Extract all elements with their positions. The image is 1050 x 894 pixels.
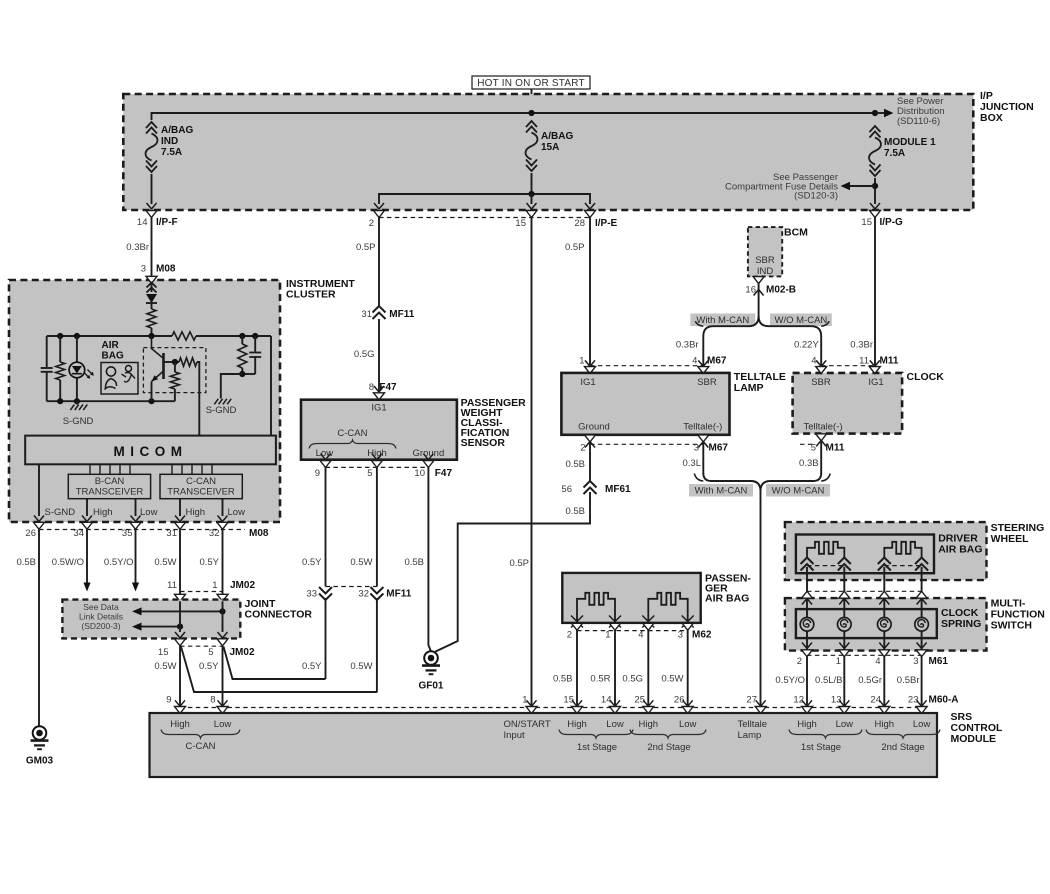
connector M61 pins 2 1 4 3 bbox=[806, 631, 808, 650]
svg-text:0.3L: 0.3L bbox=[683, 458, 702, 469]
node junction dot branch bbox=[528, 191, 534, 197]
svg-text:5: 5 bbox=[811, 443, 816, 454]
svg-text:15: 15 bbox=[861, 217, 872, 228]
MICOM block bbox=[25, 436, 276, 465]
wire MICOM to B-CAN ticks bbox=[89, 464, 91, 474]
svg-text:0.5P: 0.5P bbox=[356, 242, 376, 253]
wire data link arrow lower bbox=[140, 626, 180, 628]
svg-text:4: 4 bbox=[875, 656, 880, 667]
svg-text:Telltale(-): Telltale(-) bbox=[683, 422, 722, 433]
capacitor C2 right bbox=[254, 336, 256, 352]
wire telltale merge right bbox=[761, 473, 822, 491]
BCM box bbox=[748, 227, 782, 276]
wire 0.5B MF61 to GF01 bbox=[434, 492, 591, 653]
wire with M-CAN fork left bbox=[703, 316, 758, 367]
svg-text:25: 25 bbox=[634, 695, 645, 706]
svg-text:SPRING: SPRING bbox=[941, 618, 981, 630]
svg-text:0.3Br: 0.3Br bbox=[676, 340, 699, 351]
wire 0.5B PAB to SRS 15 bbox=[576, 630, 578, 706]
svg-text:11: 11 bbox=[859, 356, 869, 367]
wire data link arrow upper bbox=[140, 610, 223, 612]
transistor Q1 dashed box bbox=[143, 348, 206, 393]
connector I/P-G pin 15 bbox=[870, 211, 881, 218]
svg-text:M08: M08 bbox=[156, 264, 176, 275]
svg-text:8: 8 bbox=[369, 382, 374, 393]
svg-text:0.5B: 0.5B bbox=[565, 506, 585, 517]
node HOT IN ON OR START bbox=[472, 76, 590, 89]
svg-text:C-CAN: C-CAN bbox=[186, 476, 216, 487]
wire C-CAN High out bbox=[179, 499, 181, 516]
svg-text:SBR: SBR bbox=[755, 255, 775, 266]
svg-text:0.5W: 0.5W bbox=[661, 674, 683, 685]
svg-text:3: 3 bbox=[694, 443, 699, 454]
wire B-CAN Low out bbox=[135, 499, 137, 516]
connector M08 pin 3 symbol bbox=[146, 276, 157, 283]
svg-text:High: High bbox=[367, 448, 387, 459]
svg-text:(SD120-3): (SD120-3) bbox=[794, 191, 838, 202]
svg-text:4: 4 bbox=[638, 630, 643, 641]
svg-text:15A: 15A bbox=[541, 142, 559, 153]
capacitor C1 left bbox=[46, 336, 48, 367]
squib passenger 2nd stage bbox=[648, 593, 687, 622]
wire 0.5B telltale ground to MF61 bbox=[589, 442, 591, 482]
svg-text:MICOM: MICOM bbox=[114, 444, 188, 459]
svg-text:WHEEL: WHEEL bbox=[991, 533, 1030, 545]
svg-text:CLUSTER: CLUSTER bbox=[286, 289, 336, 301]
svg-text:IG1: IG1 bbox=[371, 403, 386, 414]
svg-text:Low: Low bbox=[606, 719, 624, 730]
wire 0.5Y/O B-CAN Low arrow bbox=[135, 530, 137, 584]
svg-text:4: 4 bbox=[811, 356, 816, 367]
svg-text:7.5A: 7.5A bbox=[161, 147, 182, 158]
svg-text:BCM: BCM bbox=[784, 227, 808, 239]
svg-text:Link Details: Link Details bbox=[79, 612, 123, 622]
svg-text:3: 3 bbox=[678, 630, 683, 641]
svg-text:0.3Br: 0.3Br bbox=[850, 340, 873, 351]
svg-text:0.5Y: 0.5Y bbox=[302, 557, 322, 568]
svg-text:JM02: JM02 bbox=[230, 580, 255, 591]
resistor cluster series bbox=[147, 309, 156, 328]
svg-text:2: 2 bbox=[567, 630, 572, 641]
node junction dot bus/MODULE-1 bbox=[872, 110, 878, 116]
squib passenger 1st stage bbox=[577, 593, 615, 622]
wire w/o M-CAN fork right bbox=[759, 316, 822, 367]
driver air bag box bbox=[796, 535, 934, 574]
svg-text:15: 15 bbox=[515, 218, 526, 229]
svg-text:9: 9 bbox=[166, 695, 171, 706]
svg-text:AIR: AIR bbox=[102, 340, 120, 351]
svg-text:0.5W: 0.5W bbox=[350, 661, 372, 672]
node base dot bbox=[172, 359, 178, 365]
wire cluster ground rail bbox=[47, 400, 175, 402]
wire 0.5L/B CS to SRS 13 bbox=[843, 657, 845, 706]
svg-text:35: 35 bbox=[122, 528, 133, 539]
svg-text:I/P-F: I/P-F bbox=[156, 217, 178, 228]
wire fuse to I/P-G pin 15 bbox=[874, 178, 876, 204]
svg-text:5: 5 bbox=[208, 647, 213, 658]
svg-text:10: 10 bbox=[414, 468, 425, 479]
connector I/P-F pin 14 bbox=[146, 211, 157, 218]
svg-text:1: 1 bbox=[522, 695, 527, 706]
wire 0.5W PAB to SRS 26 bbox=[687, 630, 689, 706]
ground GF01 bbox=[424, 651, 438, 665]
I/P junction box bbox=[123, 94, 973, 210]
resistor R2 right bbox=[241, 336, 243, 344]
node bus dots bbox=[57, 333, 63, 339]
svg-text:High: High bbox=[93, 507, 113, 518]
svg-text:0.5W: 0.5W bbox=[154, 557, 176, 568]
connector M11 pin 5 bbox=[816, 434, 827, 441]
svg-text:S-GND: S-GND bbox=[206, 405, 237, 416]
svg-text:SBR: SBR bbox=[811, 377, 831, 388]
svg-text:JM02: JM02 bbox=[230, 647, 255, 658]
svg-text:0.5R: 0.5R bbox=[590, 674, 610, 685]
svg-text:0.5B: 0.5B bbox=[404, 557, 424, 568]
svg-text:0.5W: 0.5W bbox=[154, 661, 176, 672]
svg-text:High: High bbox=[170, 719, 190, 730]
svg-text:7.5A: 7.5A bbox=[884, 148, 905, 159]
wire branch line to I/P-E pins bbox=[379, 194, 590, 204]
joint connector box bbox=[62, 600, 240, 639]
svg-text:S-GND: S-GND bbox=[45, 507, 76, 518]
svg-text:Low: Low bbox=[228, 507, 246, 518]
svg-text:Low: Low bbox=[913, 719, 931, 730]
svg-text:2: 2 bbox=[797, 656, 802, 667]
svg-text:Lamp: Lamp bbox=[738, 730, 762, 741]
wire cluster supply entry bbox=[151, 283, 153, 292]
svg-text:27: 27 bbox=[746, 695, 757, 706]
svg-text:(SD200-3): (SD200-3) bbox=[81, 621, 120, 631]
svg-text:26: 26 bbox=[674, 695, 685, 706]
svg-text:Low: Low bbox=[679, 719, 697, 730]
node With M-CAN label top bbox=[690, 314, 755, 327]
svg-text:26: 26 bbox=[25, 528, 36, 539]
resistor R1 left bbox=[59, 336, 61, 362]
svg-text:M61: M61 bbox=[929, 656, 949, 667]
svg-text:With M-CAN: With M-CAN bbox=[696, 315, 749, 326]
wire 0.5G PAB to SRS 25 bbox=[647, 630, 649, 706]
clock spring spiral 3 bbox=[878, 618, 892, 632]
wire I/P-E pin15 drop bbox=[531, 194, 533, 204]
svg-text:11: 11 bbox=[167, 580, 177, 591]
svg-text:TRANSCEIVER: TRANSCEIVER bbox=[167, 487, 235, 498]
svg-text:2: 2 bbox=[580, 443, 585, 454]
svg-text:M11: M11 bbox=[826, 443, 845, 454]
wire telltale merge left bbox=[703, 473, 760, 491]
wire branch JM02-5 to PWCS Low bbox=[224, 647, 326, 680]
connector M62 pins 2 1 4 3 bbox=[571, 616, 583, 628]
brace PWCS C-CAN bbox=[309, 440, 396, 449]
svg-text:24: 24 bbox=[870, 695, 881, 706]
wire arrow to See Passenger Compartment Fuse Details bbox=[849, 185, 875, 187]
svg-text:28: 28 bbox=[574, 218, 585, 229]
svg-text:IG1: IG1 bbox=[580, 377, 595, 388]
connector M60-A entry triangles bbox=[175, 700, 185, 706]
wire 0.5P pin2 to MF11 bbox=[378, 218, 380, 307]
node With M-CAN label bottom bbox=[689, 484, 753, 497]
svg-text:1: 1 bbox=[836, 656, 841, 667]
connector M08 cluster bottom pins bbox=[34, 516, 44, 522]
svg-text:CONNECTOR: CONNECTOR bbox=[245, 609, 313, 621]
connector M60-A dashed line bbox=[180, 707, 922, 709]
svg-text:SENSOR: SENSOR bbox=[461, 437, 506, 449]
svg-text:32: 32 bbox=[358, 589, 369, 600]
svg-text:High: High bbox=[875, 719, 895, 730]
svg-text:High: High bbox=[567, 719, 587, 730]
svg-text:M67: M67 bbox=[707, 356, 727, 367]
connector M02-B pin 16 bbox=[753, 277, 764, 284]
svg-text:14: 14 bbox=[601, 695, 612, 706]
wire base resistor to MICOM bbox=[197, 362, 199, 436]
svg-text:1st Stage: 1st Stage bbox=[577, 742, 617, 753]
wire branch JM02-15 to PWCS High bbox=[181, 647, 377, 693]
svg-text:0.3B: 0.3B bbox=[799, 458, 819, 469]
svg-text:HOT IN ON OR START: HOT IN ON OR START bbox=[477, 78, 585, 89]
clock spring spiral 4 bbox=[915, 618, 929, 632]
ground GM03 bbox=[33, 726, 47, 740]
connector M67 pins 2 3 bbox=[585, 435, 596, 442]
svg-text:M67: M67 bbox=[709, 443, 729, 454]
node W/O M-CAN label top bbox=[770, 314, 832, 327]
svg-text:Ground: Ground bbox=[413, 448, 445, 459]
svg-text:Low: Low bbox=[836, 719, 854, 730]
connector F47 pins 9 5 10 bbox=[321, 454, 331, 460]
SRS control module box bbox=[150, 713, 938, 777]
svg-text:5: 5 bbox=[367, 468, 372, 479]
svg-text:BOX: BOX bbox=[980, 112, 1003, 124]
svg-text:MODULE: MODULE bbox=[951, 733, 997, 745]
svg-text:M11: M11 bbox=[880, 356, 899, 367]
wire 0.5Y/O CS to SRS 12 bbox=[806, 657, 808, 706]
svg-text:M02-B: M02-B bbox=[766, 285, 796, 296]
wire 0.3Br I/P-G to clock IG1 bbox=[874, 218, 876, 367]
wire 0.5B to GM03 bbox=[38, 530, 40, 727]
svg-text:SBR: SBR bbox=[697, 377, 717, 388]
wire 0.3B clock telltale minus bbox=[820, 440, 822, 474]
svg-text:0.5Gr: 0.5Gr bbox=[858, 675, 882, 686]
svg-text:0.5G: 0.5G bbox=[622, 674, 643, 685]
svg-text:C-CAN: C-CAN bbox=[185, 741, 215, 752]
LED airbag indicator bbox=[76, 336, 78, 362]
svg-text:0.5Y: 0.5Y bbox=[302, 661, 322, 672]
svg-text:Telltale: Telltale bbox=[738, 719, 768, 730]
svg-text:MF61: MF61 bbox=[605, 484, 631, 495]
svg-text:ON/START: ON/START bbox=[504, 719, 551, 730]
connector M67 pins 1 4 bbox=[590, 365, 703, 367]
multi-function switch box bbox=[785, 598, 987, 651]
diode D1 cluster bbox=[146, 294, 157, 303]
svg-text:0.5W/O: 0.5W/O bbox=[52, 557, 84, 568]
svg-text:0.5P: 0.5P bbox=[509, 558, 529, 569]
svg-text:0.5P: 0.5P bbox=[565, 242, 585, 253]
wire 0.5W MF11-32 down bbox=[376, 598, 378, 692]
svg-text:1: 1 bbox=[212, 580, 217, 591]
svg-text:W/O M-CAN: W/O M-CAN bbox=[772, 485, 825, 496]
svg-text:2: 2 bbox=[369, 218, 374, 229]
wire telltale lamp to SRS pin 27 bbox=[760, 489, 762, 706]
svg-text:(SD110-6): (SD110-6) bbox=[897, 116, 940, 127]
node junction dot bus/A-BAG-15A bbox=[528, 110, 534, 116]
svg-text:31: 31 bbox=[166, 528, 177, 539]
wire fuse to I/P-F pin 14 bbox=[151, 174, 153, 204]
svg-text:AIR BAG: AIR BAG bbox=[938, 544, 982, 556]
connector MF11 pin 31 bbox=[373, 306, 386, 313]
svg-text:23: 23 bbox=[908, 695, 919, 706]
wire right RC to ground bbox=[242, 373, 255, 375]
telltale lamp box bbox=[561, 373, 729, 435]
wire 0.5Y PWCS Low to MF11-33 bbox=[325, 467, 327, 586]
steering wheel box bbox=[785, 522, 987, 580]
connector JM02 pins 15 5 bbox=[175, 632, 185, 638]
svg-text:M62: M62 bbox=[692, 630, 712, 641]
wire 0.5B PWCS ground to GF01 bbox=[428, 467, 431, 651]
wire 0.5Y C-CAN Low to JM02 bbox=[222, 530, 224, 595]
svg-text:32: 32 bbox=[209, 528, 220, 539]
svg-text:M60-A: M60-A bbox=[929, 695, 959, 706]
svg-text:0.5Y/O: 0.5Y/O bbox=[104, 557, 134, 568]
svg-text:GF01: GF01 bbox=[418, 681, 443, 692]
connector MF61 pin 56 bbox=[584, 481, 597, 488]
svg-text:0.5B: 0.5B bbox=[553, 674, 573, 685]
svg-text:16: 16 bbox=[745, 285, 756, 296]
svg-text:CLOCK: CLOCK bbox=[907, 371, 945, 383]
wire 0.5W JM02-15 to SRS pin 9 bbox=[179, 646, 181, 706]
connector I/P-E pins 2 15 28 bbox=[374, 211, 385, 218]
connector steering wheel to clock spring bbox=[806, 567, 808, 591]
svg-text:33: 33 bbox=[306, 589, 317, 600]
node W/O M-CAN label bottom bbox=[766, 484, 830, 497]
clock spring box bbox=[796, 609, 937, 638]
svg-text:I/P-G: I/P-G bbox=[880, 217, 904, 228]
svg-text:LAMP: LAMP bbox=[734, 382, 764, 394]
wire 0.3L telltale minus bbox=[702, 442, 704, 474]
svg-text:IND: IND bbox=[757, 266, 774, 277]
svg-text:A/BAG: A/BAG bbox=[161, 125, 193, 136]
fuse A/BAG IND 7.5A bbox=[146, 122, 157, 128]
wire B-CAN High out bbox=[86, 499, 88, 516]
wire 0.5Gr CS to SRS 24 bbox=[883, 657, 885, 706]
svg-text:Telltale(-): Telltale(-) bbox=[803, 422, 842, 433]
svg-text:AIR BAG: AIR BAG bbox=[705, 593, 749, 605]
svg-text:2nd Stage: 2nd Stage bbox=[647, 742, 690, 753]
svg-text:4: 4 bbox=[692, 356, 697, 367]
wire arrow to See Power Distribution bbox=[875, 112, 885, 114]
svg-text:9: 9 bbox=[315, 468, 320, 479]
svg-text:Ground: Ground bbox=[578, 422, 610, 433]
svg-text:0.5W: 0.5W bbox=[350, 557, 372, 568]
svg-text:MF11: MF11 bbox=[386, 589, 411, 600]
svg-text:TRANSCEIVER: TRANSCEIVER bbox=[76, 487, 144, 498]
wire bus to MICOM right bbox=[270, 336, 272, 436]
svg-text:1st Stage: 1st Stage bbox=[801, 742, 841, 753]
svg-text:High: High bbox=[639, 719, 659, 730]
C-CAN transceiver block bbox=[160, 474, 242, 498]
clock spring spiral 2 bbox=[838, 618, 852, 632]
svg-text:C-CAN: C-CAN bbox=[337, 428, 367, 439]
svg-text:3: 3 bbox=[141, 264, 146, 275]
wire hot-feed down into junction box bbox=[531, 89, 533, 113]
svg-text:56: 56 bbox=[561, 484, 572, 495]
svg-text:0.3Br: 0.3Br bbox=[126, 242, 149, 253]
resistor emitter vertical bbox=[174, 362, 176, 372]
wire 0.5P ON/START input long drop bbox=[531, 218, 533, 707]
node junction dot fuse-details tap bbox=[872, 183, 878, 189]
svg-text:MF11: MF11 bbox=[389, 309, 414, 320]
wire 0.5P pin28 to telltale lamp IG1 bbox=[589, 218, 591, 367]
squib driver 1st stage bbox=[807, 542, 844, 558]
resistor in bus bbox=[172, 332, 196, 340]
svg-text:2nd Stage: 2nd Stage bbox=[881, 742, 924, 753]
svg-text:M08: M08 bbox=[249, 528, 269, 539]
svg-text:A/BAG: A/BAG bbox=[541, 131, 573, 142]
wire 0.3Br to instrument cluster bbox=[151, 218, 153, 277]
clock spring spiral 1 bbox=[800, 618, 814, 632]
svg-text:15: 15 bbox=[158, 647, 169, 658]
wire main bus inside junction box bbox=[152, 113, 876, 120]
svg-text:S-GND: S-GND bbox=[63, 416, 94, 427]
svg-text:0.5B: 0.5B bbox=[565, 459, 585, 470]
wire fuse to branch node bbox=[531, 173, 533, 194]
transistor Q1 bbox=[162, 353, 165, 379]
fuse A/BAG 15A bbox=[526, 121, 537, 127]
squib driver 2nd stage bbox=[884, 542, 921, 558]
svg-text:GM03: GM03 bbox=[26, 756, 54, 767]
fuse MODULE 1 7.5A bbox=[870, 126, 881, 132]
svg-text:0.5Y: 0.5Y bbox=[199, 661, 219, 672]
wire cluster internal bus bbox=[47, 335, 271, 337]
wire 0.5W/O B-CAN High arrow bbox=[86, 530, 88, 584]
svg-text:0.22Y: 0.22Y bbox=[794, 340, 819, 351]
passenger air bag box bbox=[562, 573, 700, 623]
svg-text:0.5G: 0.5G bbox=[354, 349, 375, 360]
wire 0.5G MF11 to F47 bbox=[378, 319, 380, 392]
wire 0.5W C-CAN High to JM02 bbox=[179, 530, 181, 595]
wire base lead bbox=[164, 361, 180, 363]
svg-text:BAG: BAG bbox=[102, 351, 124, 362]
connector driver air bag pigtail bbox=[801, 558, 814, 565]
svg-text:0.5Y/O: 0.5Y/O bbox=[775, 675, 805, 686]
svg-text:34: 34 bbox=[73, 528, 84, 539]
svg-text:3: 3 bbox=[913, 656, 918, 667]
svg-text:Low: Low bbox=[214, 719, 232, 730]
svg-text:0.5Y: 0.5Y bbox=[199, 557, 219, 568]
svg-text:IND: IND bbox=[161, 136, 178, 147]
wire 0.5R PAB to SRS 14 bbox=[614, 630, 616, 706]
svg-text:IG1: IG1 bbox=[868, 377, 883, 388]
svg-text:W/O M-CAN: W/O M-CAN bbox=[775, 315, 828, 326]
svg-text:31: 31 bbox=[361, 309, 372, 320]
svg-text:High: High bbox=[186, 507, 206, 518]
svg-text:8: 8 bbox=[210, 695, 215, 706]
svg-text:High: High bbox=[797, 719, 817, 730]
resistor base horizontal bbox=[179, 358, 197, 366]
svg-text:0.5Br: 0.5Br bbox=[897, 675, 920, 686]
wire JM02 through-wires bbox=[179, 601, 181, 632]
svg-text:F47: F47 bbox=[435, 468, 453, 479]
connector M11 pins 4 11 bbox=[821, 365, 875, 367]
wire 0.5Br CS to SRS 23 bbox=[921, 657, 923, 706]
ground S-GND left bbox=[76, 401, 78, 404]
wire C-CAN Low out bbox=[222, 499, 224, 516]
instrument cluster box bbox=[9, 280, 280, 522]
svg-text:B-CAN: B-CAN bbox=[95, 476, 125, 487]
wire BCM drop bbox=[758, 284, 760, 317]
svg-text:14: 14 bbox=[137, 217, 148, 228]
wire S-GND out bbox=[38, 464, 40, 516]
clock box bbox=[793, 373, 903, 434]
svg-text:I/P-E: I/P-E bbox=[595, 218, 618, 229]
ground S-GND right bbox=[214, 399, 218, 405]
